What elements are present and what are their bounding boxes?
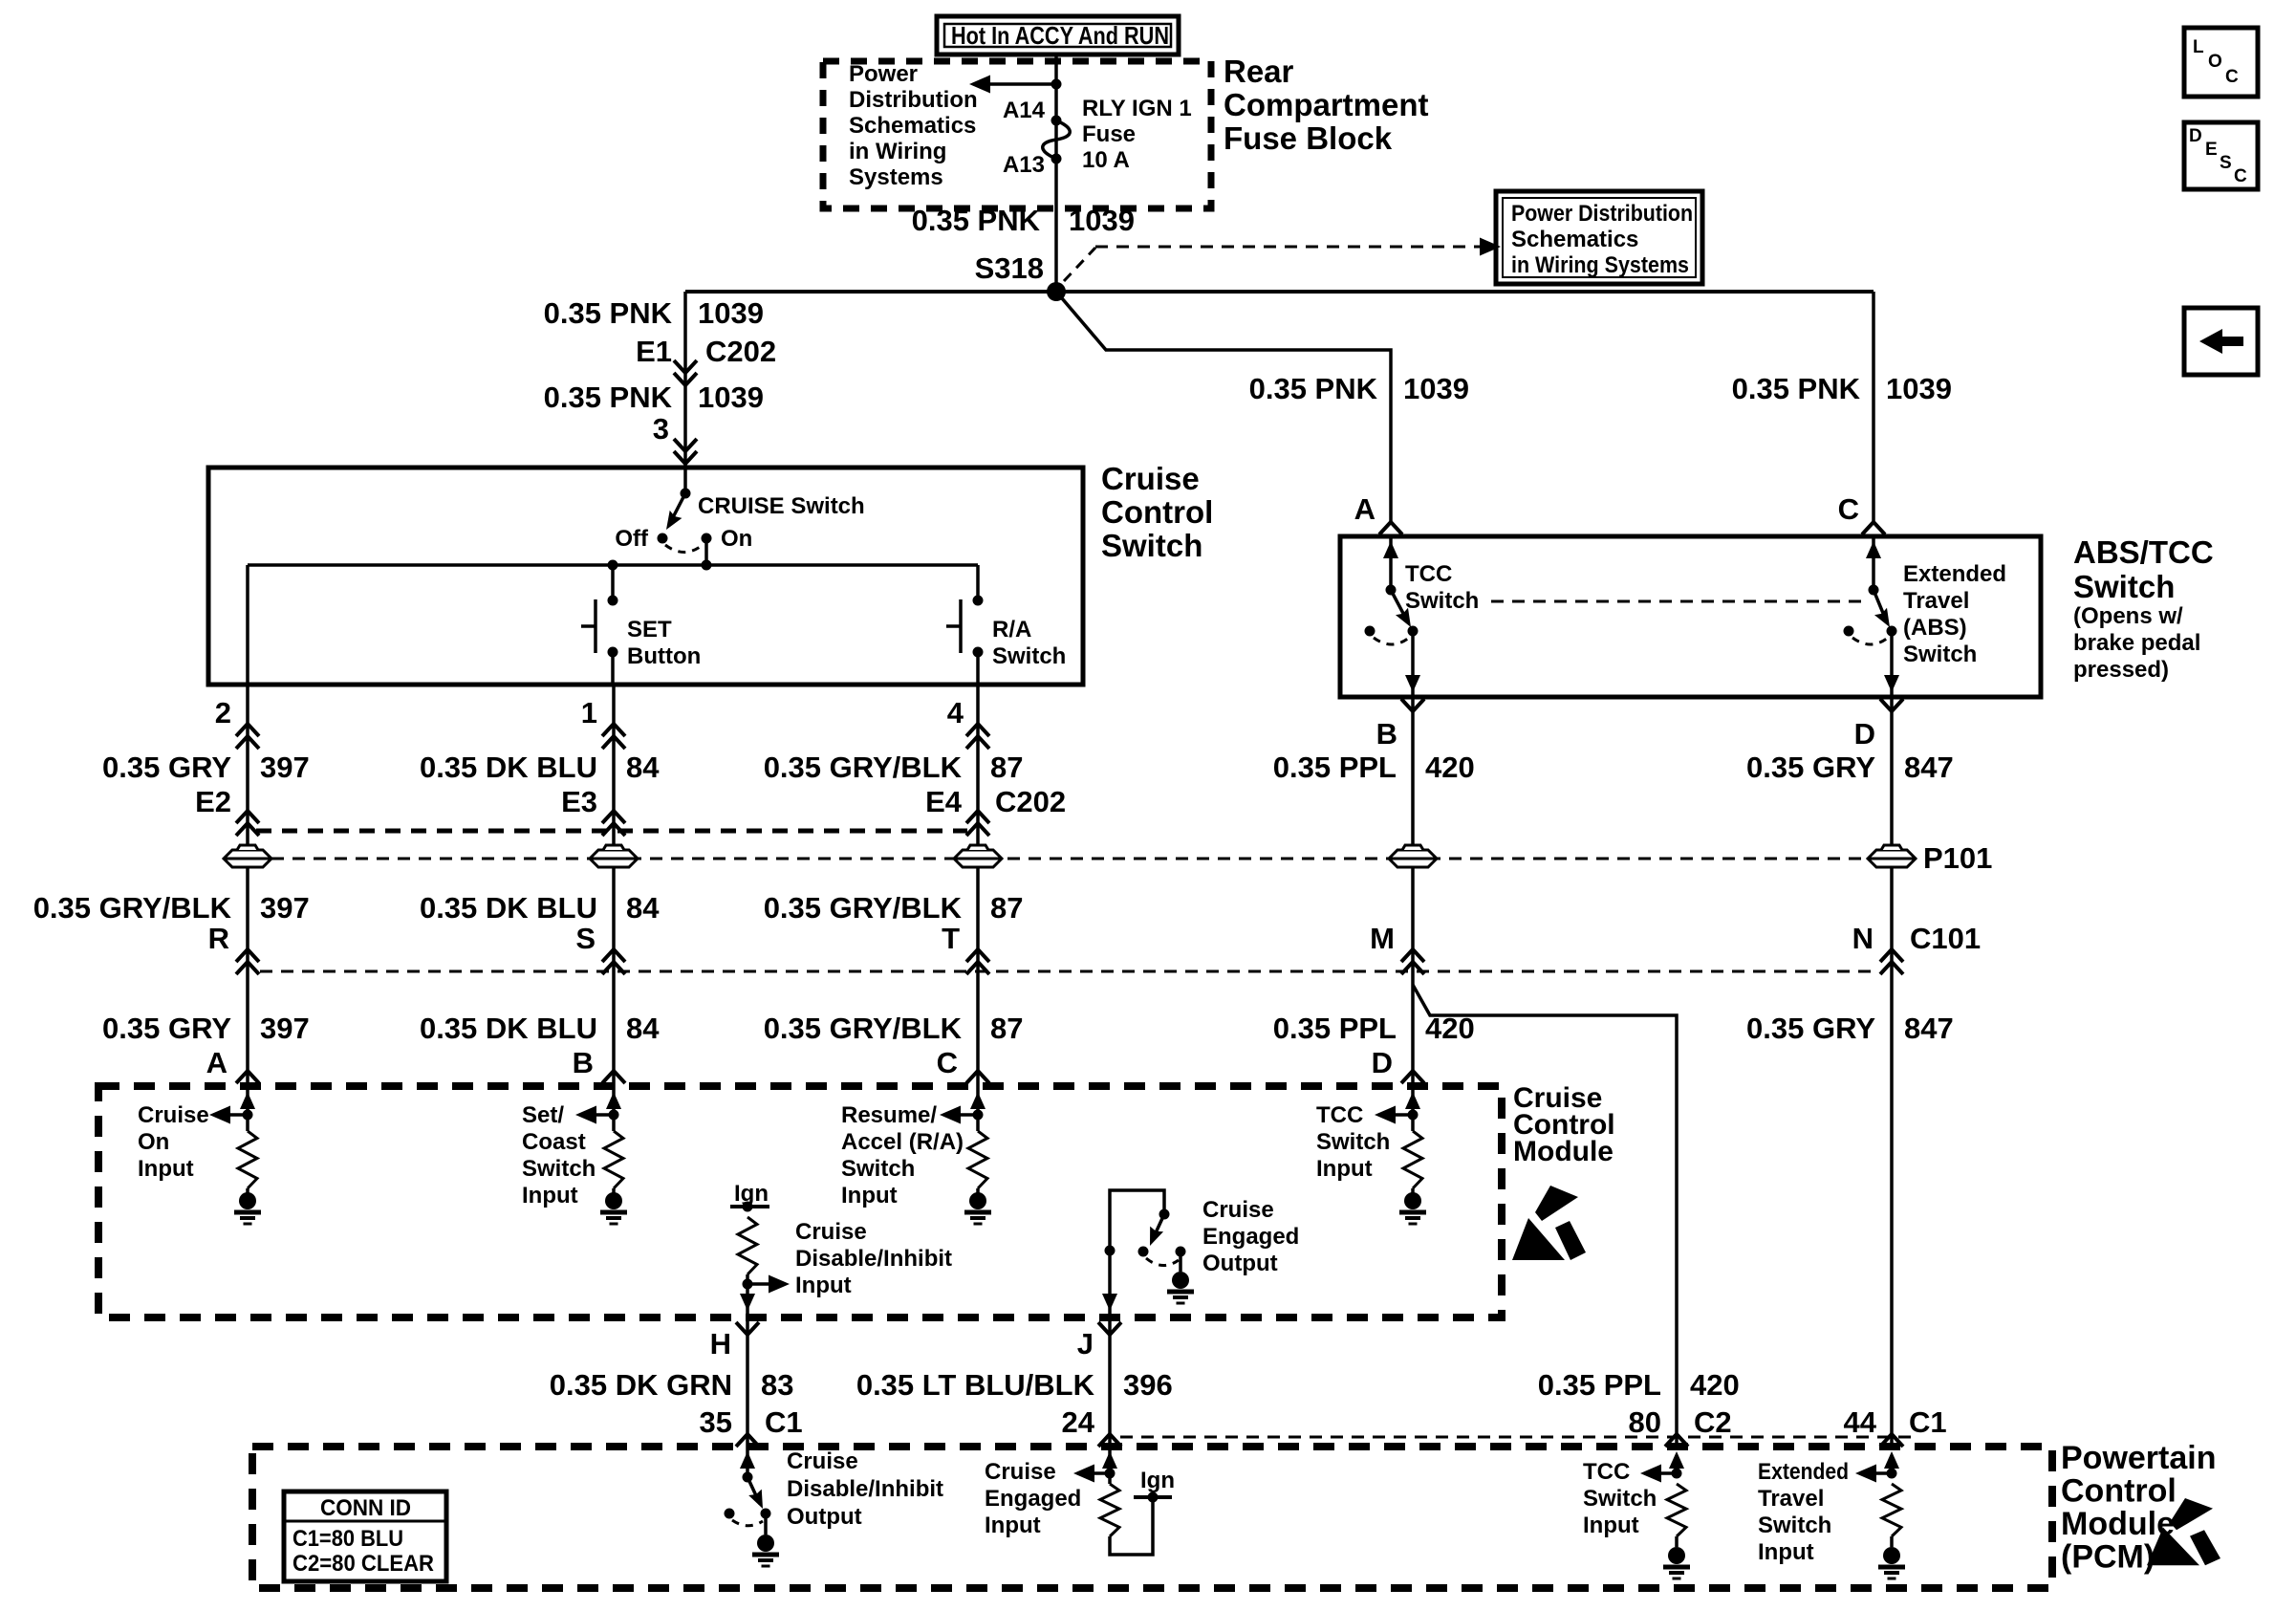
svg-text:C101: C101	[1910, 922, 1981, 955]
svg-text:C2=80 CLEAR: C2=80 CLEAR	[292, 1551, 434, 1577]
svg-text:RLY IGN 1: RLY IGN 1	[1082, 96, 1192, 121]
title ABS/TCC Switch	[2073, 534, 2214, 683]
svg-text:0.35 DK BLU: 0.35 DK BLU	[420, 1012, 597, 1045]
svg-text:Switch: Switch	[1101, 528, 1202, 563]
switch pin 3 label	[653, 412, 669, 446]
svg-text:CONN ID: CONN ID	[320, 1495, 411, 1521]
PCM pin 44 C1 label	[1844, 1405, 1947, 1439]
label 0.35 GRY 397 (row3 col1)	[102, 1012, 310, 1045]
label TCC Switch Input (PCM)	[1583, 1459, 1657, 1538]
svg-text:Switch: Switch	[1758, 1513, 1831, 1538]
connector C202 pin E4 label	[925, 785, 1066, 818]
svg-text:83: 83	[761, 1368, 793, 1402]
cruise control switch box	[208, 468, 1083, 685]
CONN ID table	[284, 1491, 446, 1581]
svg-text:D: D	[2189, 126, 2202, 146]
svg-text:0.35 DK BLU: 0.35 DK BLU	[420, 751, 597, 784]
svg-text:C: C	[2234, 166, 2247, 186]
reference box 'Power Distribution Schematics in Wiring Systems'	[1496, 191, 1702, 284]
svg-text:1: 1	[581, 696, 597, 729]
svg-text:2: 2	[215, 696, 231, 729]
svg-text:(Opens w/: (Opens w/	[2073, 603, 2183, 629]
svg-text:0.35 GRY/BLK: 0.35 GRY/BLK	[764, 751, 963, 784]
svg-text:0.35 LT BLU/BLK: 0.35 LT BLU/BLK	[856, 1368, 1095, 1402]
module input: Set/Coast Switch Input (pin B)	[522, 1086, 627, 1224]
svg-text:Resume/: Resume/	[841, 1102, 937, 1128]
svg-text:C: C	[2225, 67, 2239, 87]
pass-through P101 dashed line	[229, 858, 1914, 860]
svg-text:M: M	[1370, 922, 1395, 955]
svg-text:0.35 PPL: 0.35 PPL	[1538, 1368, 1661, 1402]
label 0.35 GRY 847 (row3 col5)	[1746, 1012, 1954, 1045]
svg-text:pressed): pressed)	[2073, 657, 2169, 683]
svg-text:Accel (R/A): Accel (R/A)	[841, 1129, 964, 1155]
wire col B (PPL 420)	[1411, 697, 1415, 1086]
svg-text:Cruise: Cruise	[795, 1219, 867, 1245]
svg-text:0.35 PNK: 0.35 PNK	[544, 381, 673, 414]
PCM TCC switch input	[1640, 1451, 1690, 1578]
wire S318 to ABS/TCC pin A	[1056, 292, 1391, 522]
wire label 0.35 PNK 1039 (to switch)	[544, 381, 764, 414]
internal bus wire	[248, 560, 978, 686]
connector C101 pin S label	[575, 922, 596, 955]
PCM pin 35 C1 label	[700, 1405, 803, 1439]
svg-text:35: 35	[700, 1405, 732, 1439]
svg-text:Set/: Set/	[522, 1102, 564, 1128]
svg-text:Input: Input	[522, 1183, 578, 1208]
splice S318 label	[975, 251, 1044, 285]
wire label 0.35 PNK 1039 (branch A)	[1249, 372, 1469, 405]
svg-text:3: 3	[653, 412, 669, 446]
svg-text:Distribution: Distribution	[849, 87, 978, 113]
module pin B label	[573, 1046, 594, 1079]
svg-text:Input: Input	[138, 1156, 194, 1182]
fuse value label	[1082, 96, 1192, 173]
title Powertain Control Module (PCM)	[2061, 1440, 2216, 1576]
label Extended Travel Switch Input	[1758, 1459, 1849, 1565]
svg-text:C: C	[1838, 492, 1859, 526]
switch pin chevrons	[236, 724, 989, 749]
pin J label	[1077, 1327, 1094, 1361]
svg-text:E2: E2	[195, 785, 231, 818]
svg-text:E4: E4	[925, 785, 963, 818]
svg-text:4: 4	[947, 696, 964, 729]
svg-text:Powertain: Powertain	[2061, 1440, 2216, 1476]
svg-text:in Wiring: in Wiring	[849, 139, 946, 164]
svg-text:Ign: Ign	[1140, 1468, 1175, 1493]
rear compartment fuse block (dashed box)	[823, 61, 1211, 208]
module pin J chevron	[1098, 1322, 1121, 1335]
power label box 'Hot In ACCY And RUN'	[937, 16, 1179, 54]
svg-text:Schematics: Schematics	[1511, 227, 1638, 252]
DESC legend box	[2184, 122, 2258, 189]
svg-text:E3: E3	[561, 785, 597, 818]
svg-text:Switch: Switch	[1316, 1129, 1390, 1155]
svg-text:Extended: Extended	[1903, 561, 2006, 587]
svg-text:T: T	[942, 922, 960, 955]
svg-text:Switch: Switch	[522, 1156, 596, 1182]
svg-text:0.35 GRY/BLK: 0.35 GRY/BLK	[764, 891, 963, 925]
CRUISE switch label	[698, 493, 865, 519]
svg-text:P101: P101	[1923, 841, 1992, 875]
PCM cruise disable/inhibit output switch	[725, 1447, 780, 1566]
connector C202 pin E2 label	[195, 785, 231, 818]
svg-text:Cruise: Cruise	[985, 1459, 1056, 1485]
svg-text:Engaged: Engaged	[985, 1486, 1081, 1512]
svg-text:Control: Control	[1101, 494, 1213, 530]
svg-text:0.35 PNK: 0.35 PNK	[912, 204, 1041, 237]
svg-text:397: 397	[260, 1012, 310, 1045]
svg-text:84: 84	[626, 1012, 660, 1045]
svg-text:Input: Input	[985, 1513, 1041, 1538]
svg-text:Rear: Rear	[1224, 54, 1294, 89]
svg-text:420: 420	[1425, 751, 1475, 784]
svg-text:Travel: Travel	[1758, 1486, 1824, 1512]
svg-text:397: 397	[260, 891, 310, 925]
svg-text:420: 420	[1690, 1368, 1740, 1402]
svg-text:Input: Input	[841, 1183, 898, 1208]
label Cruise Engaged Output	[1202, 1197, 1299, 1276]
CRUISE switch blade	[658, 468, 712, 544]
module input: Cruise On Input (pin A)	[138, 1086, 261, 1224]
label 0.35 GRY/BLK 397 (row2 col1)	[33, 891, 310, 925]
svg-text:R: R	[208, 922, 229, 955]
module Ign terminal (disable/inhibit)	[730, 1181, 769, 1212]
pin 2 label	[215, 696, 231, 729]
label Cruise Disable/Inhibit Input	[795, 1219, 952, 1298]
svg-text:TCC: TCC	[1316, 1102, 1363, 1128]
svg-text:(ABS): (ABS)	[1903, 615, 1967, 641]
connector C202 dashed line	[256, 829, 967, 834]
svg-text:D: D	[1854, 717, 1875, 751]
label 0.35 GRY 847 (row1 col5)	[1746, 751, 1954, 784]
svg-text:Switch: Switch	[1405, 588, 1479, 614]
svg-text:Extended: Extended	[1758, 1459, 1849, 1485]
svg-text:C202: C202	[995, 785, 1066, 818]
connector C101 pin T label	[942, 922, 960, 955]
svg-text:A: A	[1354, 492, 1375, 526]
pin A chevron	[1379, 522, 1402, 534]
extended travel ABS switch	[1844, 536, 1900, 697]
svg-text:Switch: Switch	[992, 643, 1066, 669]
svg-text:1039: 1039	[1886, 372, 1952, 405]
svg-text:CRUISE Switch: CRUISE Switch	[698, 493, 865, 519]
pin A14 label	[1003, 98, 1046, 123]
svg-text:Output: Output	[787, 1504, 862, 1530]
svg-text:396: 396	[1123, 1368, 1173, 1402]
module pin C label	[937, 1046, 958, 1079]
arrow to power distribution (left)	[969, 76, 1062, 94]
wire S318 to ABS/TCC pin C	[1872, 292, 1875, 522]
PCM pin chevrons	[736, 1434, 1903, 1447]
PCM cruise engaged input	[1073, 1447, 1175, 1555]
module cruise engaged output switch	[1110, 1190, 1194, 1303]
svg-text:0.35 DK BLU: 0.35 DK BLU	[420, 891, 597, 925]
svg-text:SET: SET	[627, 617, 672, 642]
svg-text:B: B	[1376, 717, 1397, 751]
SET button	[581, 565, 618, 685]
svg-text:Output: Output	[1202, 1251, 1278, 1276]
PCM pin 24 label	[1062, 1405, 1095, 1439]
svg-text:O: O	[2208, 52, 2222, 72]
pin D chevron	[1880, 699, 1903, 711]
svg-text:C: C	[937, 1046, 958, 1079]
svg-text:0.35 GRY: 0.35 GRY	[102, 751, 231, 784]
svg-text:S318: S318	[975, 251, 1044, 285]
svg-text:N: N	[1852, 922, 1874, 955]
svg-text:On: On	[721, 526, 752, 552]
note: power distribution schematics in wiring systems	[849, 61, 978, 190]
C101 chevrons	[236, 949, 1903, 974]
svg-text:Switch: Switch	[841, 1156, 915, 1182]
svg-text:S: S	[575, 922, 596, 955]
svg-text:84: 84	[626, 751, 660, 784]
svg-text:C1: C1	[765, 1405, 803, 1439]
svg-text:Button: Button	[627, 643, 701, 669]
svg-text:E1: E1	[636, 335, 672, 368]
label 0.35 DK BLU 84 (row1 col2)	[420, 751, 660, 784]
svg-text:L: L	[2193, 37, 2204, 57]
svg-text:Disable/Inhibit: Disable/Inhibit	[795, 1246, 952, 1272]
title Rear Compartment Fuse Block	[1224, 54, 1429, 156]
svg-text:Switch: Switch	[2073, 569, 2175, 604]
connector C101 pin N label	[1852, 922, 1982, 955]
module input: TCC Switch Input (pin D)	[1316, 1086, 1426, 1224]
ESD symbol (PCM)	[2147, 1498, 2220, 1565]
pin D label	[1854, 717, 1875, 751]
svg-text:Engaged: Engaged	[1202, 1224, 1299, 1250]
powertrain control module box (dashed)	[252, 1447, 2052, 1588]
svg-text:(PCM): (PCM)	[2061, 1539, 2155, 1576]
svg-text:Input: Input	[1316, 1156, 1373, 1182]
pin B chevron	[1401, 699, 1424, 711]
SET button label	[627, 617, 701, 669]
title Cruise Control Switch	[1101, 461, 1213, 563]
wire col D (GRY 847)	[1890, 697, 1894, 1447]
label 0.35 GRY/BLK 87 (row2 col3)	[764, 891, 1024, 925]
wire H to PCM pin 35	[746, 1317, 749, 1447]
connector C101 dashed line	[260, 970, 1875, 973]
svg-text:1039: 1039	[1403, 372, 1469, 405]
svg-text:10 A: 10 A	[1082, 147, 1130, 173]
PCM connector dashed line	[1120, 1436, 1919, 1439]
back-arrow legend box	[2184, 308, 2258, 375]
CRUISE switch travel arc	[665, 545, 703, 553]
svg-text:S: S	[2220, 153, 2232, 173]
svg-text:E: E	[2205, 140, 2218, 160]
svg-text:ABS/TCC: ABS/TCC	[2073, 534, 2214, 570]
svg-text:1039: 1039	[698, 381, 764, 414]
label Cruise Engaged Input	[985, 1459, 1081, 1538]
pin A13 label	[1003, 152, 1045, 178]
wire J to PCM pin 24	[1108, 1317, 1112, 1447]
Off label	[615, 526, 649, 552]
svg-text:Input: Input	[1583, 1513, 1639, 1538]
label 0.35 DK BLU 84 (row3 col2)	[420, 1012, 660, 1045]
switch pin 3 chevrons	[674, 439, 697, 464]
wire On contact to bus	[704, 538, 708, 565]
connector C101 pin M label	[1370, 922, 1395, 955]
module input: Resume/Accel Switch Input (pin C)	[841, 1086, 991, 1224]
svg-text:Ign: Ign	[734, 1181, 769, 1207]
svg-text:Power Distribution: Power Distribution	[1511, 201, 1693, 227]
module pin J wire	[1102, 1246, 1117, 1318]
svg-text:0.35 DK GRN: 0.35 DK GRN	[550, 1368, 732, 1402]
wire col 2 (GRY 397)	[246, 685, 249, 1086]
label Cruise Disable/Inhibit Output	[787, 1448, 943, 1530]
svg-text:87: 87	[990, 891, 1023, 925]
svg-text:C202: C202	[705, 335, 776, 368]
svg-text:brake pedal: brake pedal	[2073, 630, 2200, 656]
svg-text:0.35 PNK: 0.35 PNK	[1249, 372, 1378, 405]
PCM extended travel switch input	[1855, 1451, 1905, 1578]
P101 label	[1923, 841, 1992, 875]
title Cruise Control Module	[1513, 1082, 1615, 1167]
svg-text:0.35 PPL: 0.35 PPL	[1273, 1012, 1397, 1045]
TCC switch label	[1405, 561, 1479, 614]
svg-text:44: 44	[1844, 1405, 1877, 1439]
svg-text:Travel: Travel	[1903, 588, 1969, 614]
label 0.35 DK GRN 83	[550, 1368, 794, 1402]
module pin A label	[206, 1046, 227, 1079]
P101 grommet col2	[590, 845, 638, 867]
svg-text:in Wiring Systems: in Wiring Systems	[1511, 252, 1689, 278]
svg-text:A: A	[206, 1046, 227, 1079]
svg-text:D: D	[1372, 1046, 1393, 1079]
label 0.35 PPL 420 (row3 col4)	[1273, 1012, 1475, 1045]
module pin H chevron	[736, 1322, 759, 1335]
svg-text:B: B	[573, 1046, 594, 1079]
P101 grommet col3	[954, 845, 1002, 867]
svg-text:Fuse Block: Fuse Block	[1224, 120, 1393, 156]
On label	[721, 526, 752, 552]
svg-text:397: 397	[260, 751, 310, 784]
svg-text:C2: C2	[1694, 1405, 1732, 1439]
wire col 4 (GRY/BLK 87)	[976, 685, 980, 1086]
svg-text:0.35 GRY/BLK: 0.35 GRY/BLK	[33, 891, 232, 925]
svg-text:Cruise: Cruise	[1101, 461, 1200, 496]
svg-text:On: On	[138, 1129, 169, 1155]
mechanical link dashed line	[1491, 600, 1862, 603]
svg-text:0.35 GRY: 0.35 GRY	[1746, 751, 1875, 784]
P101 grommet col1	[224, 845, 271, 867]
wire col 1 (DK BLU 84)	[612, 685, 616, 1086]
connector C101 pin R label	[208, 922, 229, 955]
svg-text:Fuse: Fuse	[1082, 121, 1136, 147]
svg-text:0.35 PNK: 0.35 PNK	[544, 296, 673, 330]
connector C202 chevrons	[674, 360, 697, 385]
fuse F 'RLY IGN 1' element	[1043, 116, 1071, 164]
connector C202 pin E3 label	[561, 785, 597, 818]
wire S318 to cruise switch pin 3	[683, 292, 687, 468]
svg-text:1039: 1039	[698, 296, 764, 330]
svg-text:Cruise: Cruise	[138, 1102, 209, 1128]
module pin D label	[1372, 1046, 1393, 1079]
svg-text:Disable/Inhibit: Disable/Inhibit	[787, 1476, 943, 1502]
module pin chevrons	[236, 1071, 1424, 1083]
svg-text:A14: A14	[1003, 98, 1046, 123]
label 0.35 GRY/BLK 87 (row1 col3)	[764, 751, 1024, 784]
P101 grommet col4	[1389, 845, 1437, 867]
svg-text:Input: Input	[795, 1273, 852, 1298]
R/A switch	[946, 596, 984, 686]
svg-text:87: 87	[990, 751, 1023, 784]
svg-text:Control: Control	[2061, 1473, 2177, 1510]
pin 1 label	[581, 696, 597, 729]
svg-text:0.35 PNK: 0.35 PNK	[1732, 372, 1861, 405]
label 0.35 PPL 420 (to PCM)	[1538, 1368, 1740, 1402]
label 0.35 LT BLU/BLK 396	[856, 1368, 1173, 1402]
svg-text:24: 24	[1062, 1405, 1095, 1439]
svg-text:TCC: TCC	[1583, 1459, 1630, 1485]
svg-text:Cruise: Cruise	[787, 1448, 858, 1474]
svg-text:Compartment: Compartment	[1224, 87, 1429, 122]
C202 chevrons row E	[236, 811, 989, 836]
splice S318	[1047, 282, 1066, 301]
svg-text:Cruise: Cruise	[1202, 1197, 1274, 1223]
pin 4 label	[947, 696, 964, 729]
wire from Hot box through fuse to S318	[1054, 54, 1058, 292]
svg-text:Switch: Switch	[1903, 642, 1977, 667]
svg-text:H: H	[710, 1327, 731, 1361]
svg-text:Power: Power	[849, 61, 918, 87]
ABS/TCC switch box	[1340, 536, 2041, 697]
svg-text:87: 87	[990, 1012, 1023, 1045]
label 0.35 GRY/BLK 87 (row3 col3)	[764, 1012, 1024, 1045]
wire label 0.35 PNK 1039 (branch C)	[1732, 372, 1952, 405]
module cruise disable/inhibit input arrow	[740, 1274, 790, 1317]
PCM pin 80 C2 label	[1629, 1405, 1732, 1439]
P101 grommet col5	[1868, 845, 1916, 867]
svg-text:Module: Module	[1513, 1136, 1614, 1167]
svg-text:80: 80	[1629, 1405, 1661, 1439]
svg-text:0.35 PPL: 0.35 PPL	[1273, 751, 1397, 784]
connector C202 pin E1 label	[636, 335, 776, 368]
main bus wire at S318	[685, 290, 1874, 294]
svg-text:Schematics: Schematics	[849, 113, 976, 139]
pin C label	[1838, 492, 1859, 526]
svg-text:847: 847	[1904, 751, 1954, 784]
label 0.35 GRY 397 (row1 col1)	[102, 751, 310, 784]
pin A label	[1354, 492, 1375, 526]
svg-text:Hot In ACCY And RUN: Hot In ACCY And RUN	[951, 21, 1169, 50]
svg-text:R/A: R/A	[992, 617, 1031, 642]
extended travel switch label	[1903, 561, 2006, 667]
svg-text:Switch: Switch	[1583, 1486, 1657, 1512]
svg-text:0.35 GRY: 0.35 GRY	[1746, 1012, 1875, 1045]
svg-text:J: J	[1077, 1327, 1094, 1361]
LOC legend box	[2184, 28, 2258, 97]
pin B label	[1376, 717, 1397, 751]
dashed reference arrow to power distribution schematics	[1064, 238, 1501, 282]
svg-text:Input: Input	[1758, 1539, 1814, 1565]
svg-text:C1: C1	[1909, 1405, 1947, 1439]
svg-text:0.35 GRY: 0.35 GRY	[102, 1012, 231, 1045]
R/A switch label	[992, 617, 1066, 669]
svg-text:0.35 GRY/BLK: 0.35 GRY/BLK	[764, 1012, 963, 1045]
svg-text:Module: Module	[2061, 1506, 2175, 1542]
pin C chevron	[1862, 522, 1885, 534]
svg-text:A13: A13	[1003, 152, 1045, 178]
module resistor (disable/inhibit)	[738, 1217, 757, 1274]
svg-text:84: 84	[626, 891, 660, 925]
svg-text:1039: 1039	[1069, 204, 1135, 237]
svg-text:420: 420	[1425, 1012, 1475, 1045]
ESD symbol (cruise control module)	[1512, 1186, 1586, 1260]
label 0.35 PPL 420 (row1 col4)	[1273, 751, 1475, 784]
TCC switch	[1365, 536, 1421, 697]
wire label 0.35 PNK 1039 (to C202)	[544, 296, 764, 330]
